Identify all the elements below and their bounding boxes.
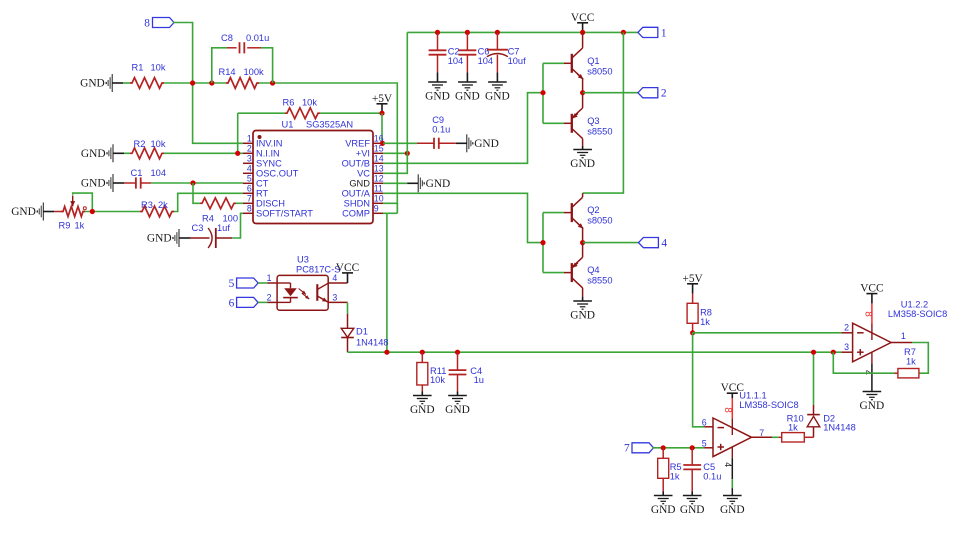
- svg-text:GND: GND: [651, 504, 676, 516]
- svg-text:10k: 10k: [151, 63, 166, 73]
- svg-text:104: 104: [478, 56, 494, 66]
- svg-text:GND: GND: [455, 90, 480, 102]
- ground: [720, 496, 745, 516]
- svg-text:14: 14: [374, 154, 384, 164]
- svg-text:1uf: 1uf: [217, 223, 230, 233]
- wire: [383, 212, 397, 214]
- svg-text:RT: RT: [256, 189, 269, 199]
- ground: [456, 134, 499, 152]
- transistor Q2 s8050: [564, 197, 613, 228]
- port 8: [144, 18, 174, 30]
- svg-text:C6: C6: [478, 46, 490, 56]
- svg-text:0.01u: 0.01u: [246, 33, 269, 43]
- svg-text:1: 1: [661, 27, 667, 39]
- svg-text:OUT/B: OUT/B: [342, 159, 370, 169]
- power VCC: [571, 12, 594, 33]
- svg-text:GND: GND: [147, 233, 172, 245]
- port 2: [583, 88, 667, 100]
- power VCC: [336, 262, 359, 283]
- wire: [731, 479, 733, 488]
- ground: [81, 174, 124, 192]
- wire: [542, 213, 544, 273]
- ground: [570, 301, 595, 321]
- svg-text:R7: R7: [904, 347, 916, 357]
- svg-text:GND: GND: [11, 206, 36, 218]
- svg-text:SHDN: SHDN: [344, 199, 370, 209]
- capacitor C9: [383, 115, 456, 149]
- junction: [420, 350, 425, 355]
- svg-text:10k: 10k: [302, 98, 317, 108]
- resistor R14: [219, 67, 265, 88]
- svg-text:+5V: +5V: [372, 93, 393, 105]
- wire: [383, 182, 407, 184]
- svg-text:1k: 1k: [788, 422, 798, 432]
- capacitor C8: [212, 33, 273, 83]
- svg-text:C1: C1: [131, 168, 143, 178]
- svg-text:8: 8: [722, 407, 733, 413]
- potentiometer R9: [54, 196, 86, 231]
- capacitor C3: [190, 223, 232, 248]
- wire: [383, 93, 543, 164]
- junction: [540, 90, 545, 95]
- junction: [270, 80, 275, 85]
- svg-text:2: 2: [267, 293, 272, 303]
- svg-text:1k: 1k: [75, 220, 85, 230]
- wire: [383, 193, 543, 242]
- wire: [232, 213, 243, 238]
- wire: [693, 333, 705, 427]
- junction: [831, 350, 836, 355]
- svg-text:12: 12: [374, 174, 384, 184]
- svg-text:5: 5: [229, 278, 235, 290]
- svg-text:GND: GND: [860, 400, 885, 412]
- op-amp U1 SG3525AN box: [253, 120, 373, 224]
- junction: [209, 80, 214, 85]
- junction: [190, 80, 195, 85]
- resistor R10: [779, 413, 814, 442]
- ground: [11, 203, 54, 221]
- svg-text:100k: 100k: [244, 67, 265, 77]
- svg-text:5: 5: [247, 174, 252, 184]
- svg-text:10uf: 10uf: [508, 56, 527, 66]
- port 4: [583, 238, 668, 250]
- transistor Q4 s8550: [564, 257, 613, 288]
- svg-text:7: 7: [247, 194, 252, 204]
- svg-text:VCC: VCC: [571, 12, 594, 24]
- wire: [543, 122, 564, 124]
- junction: [190, 180, 195, 185]
- wire: [407, 31, 638, 33]
- svg-text:GND: GND: [680, 504, 705, 516]
- wire: [582, 228, 584, 243]
- svg-text:Q1: Q1: [587, 56, 599, 66]
- wire: [237, 113, 239, 153]
- svg-text:C7: C7: [508, 46, 520, 56]
- power +5V: [682, 273, 703, 294]
- junction: [435, 30, 440, 35]
- wire: [258, 301, 267, 303]
- wire: [582, 193, 584, 197]
- transistor Q3 s8550: [564, 108, 613, 139]
- svg-text:OUT/A: OUT/A: [342, 189, 371, 199]
- junction: [384, 350, 389, 355]
- wire: [693, 332, 842, 334]
- svg-text:C3: C3: [192, 223, 204, 233]
- svg-text:+VI: +VI: [356, 149, 370, 159]
- ground: [147, 229, 190, 247]
- svg-text:8: 8: [247, 204, 252, 214]
- junction: [540, 240, 545, 245]
- ground: [651, 496, 676, 516]
- svg-text:R2: R2: [134, 139, 146, 149]
- svg-text:s8550: s8550: [587, 276, 612, 286]
- wire: [582, 243, 584, 258]
- svg-text:s8550: s8550: [587, 126, 612, 136]
- svg-text:0.1u: 0.1u: [703, 471, 721, 481]
- svg-text:C5: C5: [703, 462, 715, 472]
- svg-text:Q3: Q3: [587, 116, 599, 126]
- ground: [445, 396, 470, 416]
- junction: [495, 30, 500, 35]
- svg-text:1u: 1u: [474, 375, 484, 385]
- power +5V: [372, 93, 393, 113]
- ground: [410, 396, 435, 416]
- wire: [174, 193, 243, 211]
- wire: [582, 79, 584, 93]
- port 5: [229, 278, 259, 290]
- svg-text:LM358-SOIC8: LM358-SOIC8: [888, 309, 947, 319]
- svg-text:R6: R6: [283, 98, 295, 108]
- svg-text:Q2: Q2: [587, 205, 599, 215]
- svg-text:11: 11: [374, 184, 383, 194]
- wire: [582, 32, 584, 48]
- junction: [580, 90, 585, 95]
- svg-text:7: 7: [624, 443, 630, 455]
- ground: [407, 174, 450, 192]
- wire: [383, 203, 397, 213]
- svg-text:N.I.IN: N.I.IN: [256, 149, 280, 159]
- junction: [235, 151, 240, 156]
- wire: [582, 288, 584, 301]
- junction: [690, 330, 695, 335]
- port 1: [638, 27, 667, 39]
- wire: [259, 83, 397, 213]
- wire: [731, 488, 733, 495]
- op-amp U1.1.1 LM358-SOIC8: [702, 390, 799, 479]
- svg-text:DISCH: DISCH: [256, 199, 285, 209]
- wire: [164, 152, 243, 154]
- wire: [652, 447, 704, 449]
- svg-text:1: 1: [901, 331, 906, 341]
- capacitor C7: [487, 32, 526, 82]
- svg-text:8: 8: [862, 311, 873, 317]
- wire: [543, 62, 564, 64]
- svg-text:COMP: COMP: [342, 209, 370, 219]
- svg-text:1: 1: [267, 273, 272, 283]
- junction: [580, 240, 585, 245]
- svg-text:1N4148: 1N4148: [823, 422, 856, 432]
- svg-text:GND: GND: [349, 179, 370, 189]
- svg-text:U1.2.2: U1.2.2: [901, 299, 928, 309]
- U1 left pins 1-8: [243, 134, 313, 219]
- resistor R3: [140, 200, 174, 217]
- svg-text:100: 100: [223, 213, 239, 223]
- svg-text:OSC.OUT: OSC.OUT: [256, 169, 299, 179]
- resistor R7: [895, 343, 929, 378]
- svg-text:6: 6: [702, 417, 707, 427]
- wire: [193, 183, 200, 203]
- svg-text:3: 3: [332, 293, 337, 303]
- ground: [485, 82, 510, 102]
- junction: [465, 30, 470, 35]
- resistor R8: [687, 294, 712, 333]
- svg-text:SYNC: SYNC: [256, 159, 282, 169]
- svg-text:10: 10: [374, 194, 384, 204]
- svg-text:1N4148: 1N4148: [356, 337, 389, 347]
- svg-text:s8050: s8050: [587, 216, 612, 226]
- wire: [85, 211, 140, 213]
- svg-text:R5: R5: [670, 462, 682, 472]
- svg-text:GND: GND: [81, 178, 106, 190]
- svg-text:VC: VC: [357, 169, 370, 179]
- svg-text:SOFT/START: SOFT/START: [256, 209, 313, 219]
- svg-text:R14: R14: [219, 67, 236, 77]
- svg-text:R1: R1: [132, 63, 144, 73]
- op-amp U1.2.2 LM358-SOIC8: [841, 299, 947, 391]
- junction: [90, 209, 95, 214]
- junction: [405, 151, 410, 156]
- svg-text:LM358-SOIC8: LM358-SOIC8: [739, 400, 798, 410]
- svg-text:2k: 2k: [158, 200, 168, 210]
- resistor R2: [124, 139, 166, 159]
- svg-text:R4: R4: [202, 213, 214, 223]
- diode D1 1N4148: [341, 314, 388, 353]
- svg-text:4: 4: [332, 273, 337, 283]
- junction: [380, 141, 385, 146]
- capacitor C1: [124, 168, 166, 189]
- svg-text:+5V: +5V: [682, 273, 703, 285]
- svg-text:C8: C8: [221, 33, 233, 43]
- wire: [383, 153, 407, 173]
- wire: [381, 113, 383, 143]
- svg-text:13: 13: [374, 164, 384, 174]
- svg-text:VCC: VCC: [721, 382, 744, 394]
- svg-text:INV.IN: INV.IN: [256, 139, 283, 149]
- svg-text:VCC: VCC: [336, 262, 359, 274]
- svg-text:Q4: Q4: [587, 265, 599, 275]
- svg-text:GND: GND: [410, 404, 435, 416]
- ground: [455, 82, 480, 102]
- ground: [860, 392, 885, 412]
- wire: [542, 63, 544, 123]
- svg-text:GND: GND: [570, 309, 595, 321]
- svg-text:R3: R3: [141, 200, 153, 210]
- wire: [543, 212, 564, 214]
- wire: [813, 352, 815, 405]
- svg-text:10k: 10k: [430, 375, 445, 385]
- svg-text:GND: GND: [426, 178, 451, 190]
- svg-text:4: 4: [247, 164, 252, 174]
- svg-text:R8: R8: [700, 307, 712, 317]
- svg-text:5: 5: [702, 438, 707, 448]
- svg-text:GND: GND: [570, 158, 595, 170]
- wire: [348, 351, 842, 353]
- wire: [582, 93, 584, 108]
- wire: [583, 32, 624, 193]
- diode D2 1N4148: [807, 405, 856, 437]
- ground: [80, 74, 123, 92]
- wire: [772, 436, 779, 438]
- wire: [833, 352, 894, 373]
- ground: [81, 144, 124, 162]
- wire: [73, 193, 93, 211]
- junction: [621, 30, 626, 35]
- svg-text:6: 6: [247, 184, 252, 194]
- svg-text:GND: GND: [425, 90, 450, 102]
- transistor Q1 s8050: [564, 48, 613, 79]
- svg-text:1k: 1k: [906, 357, 916, 367]
- ground: [570, 150, 595, 170]
- wire: [173, 23, 243, 144]
- junction: [661, 445, 666, 450]
- svg-text:104: 104: [448, 56, 464, 66]
- wire: [164, 82, 226, 84]
- svg-text:GND: GND: [81, 148, 106, 160]
- wire: [406, 32, 408, 153]
- junction: [690, 445, 695, 450]
- svg-text:1k: 1k: [700, 317, 710, 327]
- svg-text:1: 1: [247, 134, 252, 144]
- resistor R11: [417, 352, 447, 395]
- svg-text:C2: C2: [448, 46, 460, 56]
- svg-text:4: 4: [661, 238, 667, 250]
- wire: [347, 302, 349, 313]
- capacitor C6: [459, 32, 494, 82]
- wire: [258, 282, 267, 284]
- power VCC: [721, 382, 744, 398]
- svg-text:U1: U1: [282, 120, 294, 130]
- svg-text:0.1u: 0.1u: [432, 124, 450, 134]
- resistor R4: [200, 198, 238, 223]
- svg-text:7: 7: [759, 428, 764, 438]
- svg-text:2: 2: [844, 323, 849, 333]
- port 6: [229, 297, 259, 309]
- svg-text:1k: 1k: [670, 471, 680, 481]
- svg-text:GND: GND: [485, 90, 510, 102]
- wire: [543, 272, 564, 274]
- svg-text:R9: R9: [59, 220, 71, 230]
- svg-text:GND: GND: [720, 504, 745, 516]
- capacitor C2: [429, 32, 464, 82]
- junction: [379, 111, 384, 116]
- svg-text:9: 9: [374, 204, 379, 214]
- port 7: [624, 443, 654, 455]
- ground: [425, 82, 450, 102]
- wire: [151, 182, 243, 184]
- op-amp U3 PC817C-S: [267, 255, 348, 311]
- junction: [455, 350, 460, 355]
- svg-text:CT: CT: [256, 179, 269, 189]
- svg-text:10k: 10k: [151, 139, 166, 149]
- svg-text:8: 8: [144, 18, 150, 30]
- svg-text:GND: GND: [80, 78, 105, 90]
- svg-text:GND: GND: [474, 138, 499, 150]
- svg-text:GND: GND: [445, 404, 470, 416]
- resistor R5: [658, 448, 682, 496]
- svg-text:4: 4: [723, 462, 733, 467]
- ground: [680, 496, 705, 516]
- svg-text:2: 2: [247, 144, 252, 154]
- junction: [580, 30, 585, 35]
- wire: [383, 152, 407, 154]
- wire: [386, 213, 388, 352]
- junction: [811, 350, 816, 355]
- resistor R1: [123, 63, 166, 89]
- resistor R6: [238, 98, 382, 119]
- capacitor C5: [683, 448, 721, 496]
- svg-text:6: 6: [229, 297, 235, 309]
- svg-text:s8050: s8050: [587, 66, 612, 76]
- svg-text:VCC: VCC: [860, 283, 883, 295]
- svg-text:2: 2: [661, 88, 667, 100]
- U1 right pins 9-16: [342, 134, 384, 219]
- svg-text:3: 3: [247, 154, 252, 164]
- svg-text:104: 104: [151, 168, 167, 178]
- wire: [236, 202, 243, 204]
- svg-text:VREF: VREF: [345, 139, 370, 149]
- svg-text:3: 3: [844, 342, 849, 352]
- power VCC: [860, 283, 883, 304]
- capacitor C4: [449, 352, 484, 395]
- svg-text:SG3525AN: SG3525AN: [306, 120, 353, 130]
- svg-text:D1: D1: [356, 326, 368, 336]
- svg-text:U3: U3: [297, 255, 309, 265]
- wire: [582, 139, 584, 150]
